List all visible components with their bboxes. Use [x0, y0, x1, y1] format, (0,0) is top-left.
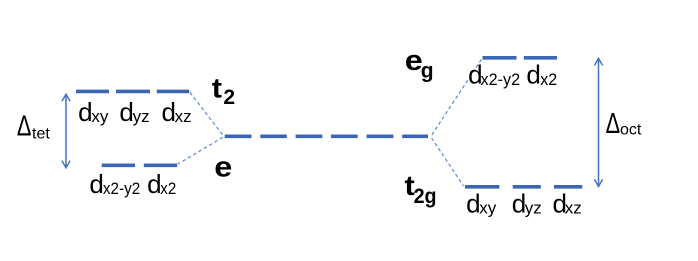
delta-tet double arrow shaft — [65, 94, 67, 168]
svg-text:xz: xz — [565, 199, 582, 218]
free-ion center level dash 2 — [260, 135, 287, 139]
svg-text:d: d — [526, 59, 540, 89]
svg-text:xz: xz — [175, 107, 192, 126]
svg-text:e: e — [214, 150, 232, 183]
svg-text:x2-y2: x2-y2 — [103, 179, 140, 198]
e level (tetrahedral lower) dash 1 — [102, 164, 135, 168]
t2g level dash 2 — [513, 185, 541, 189]
delta-tet arrowhead bottom — [62, 161, 70, 168]
t2g level (octahedral lower) dash 1 — [465, 185, 499, 189]
svg-text:t: t — [212, 73, 222, 104]
t2g level dash 3 — [554, 185, 582, 189]
svg-text:Δ: Δ — [606, 108, 621, 140]
svg-text:tet: tet — [32, 126, 50, 143]
svg-text:xy: xy — [479, 199, 497, 218]
svg-text:x2: x2 — [160, 179, 176, 198]
svg-text:Δ: Δ — [17, 111, 32, 143]
svg-text:x2-y2: x2-y2 — [481, 70, 521, 89]
free-ion center level dash 3 — [296, 135, 323, 139]
t2 level dash 2 — [116, 90, 150, 94]
eg level (octahedral upper) dash 1 — [483, 56, 517, 60]
delta-oct arrowhead top — [595, 58, 603, 65]
svg-text:oct: oct — [620, 121, 642, 138]
connector t2 level to center — [190, 93, 223, 136]
connector center to t2g level — [432, 138, 464, 186]
delta-tet arrowhead top — [62, 94, 70, 101]
free-ion center level dash 5 — [367, 135, 394, 139]
delta-oct arrowhead bottom — [595, 180, 603, 187]
svg-text:xy: xy — [91, 107, 109, 126]
free-ion center level dash 1 — [225, 135, 252, 139]
svg-text:yz: yz — [525, 199, 542, 218]
free-ion center level dash 4 — [331, 135, 358, 139]
eg level dash 2 — [524, 56, 557, 60]
svg-text:yz: yz — [133, 107, 150, 126]
connector center to e level — [178, 137, 223, 164]
svg-text:d: d — [89, 169, 103, 199]
svg-text:g: g — [421, 60, 434, 83]
connector center to eg level — [432, 59, 482, 135]
e level dash 2 — [144, 164, 177, 168]
free-ion center level dash 6 — [402, 135, 428, 139]
delta-oct double arrow shaft — [598, 58, 600, 186]
svg-text:x2: x2 — [540, 70, 557, 89]
svg-text:2: 2 — [223, 86, 235, 109]
t2 level (tetrahedral upper) dash 1 — [76, 90, 109, 94]
t2 level dash 3 — [157, 90, 190, 94]
svg-text:2g: 2g — [414, 185, 437, 208]
svg-text:d: d — [78, 97, 92, 127]
